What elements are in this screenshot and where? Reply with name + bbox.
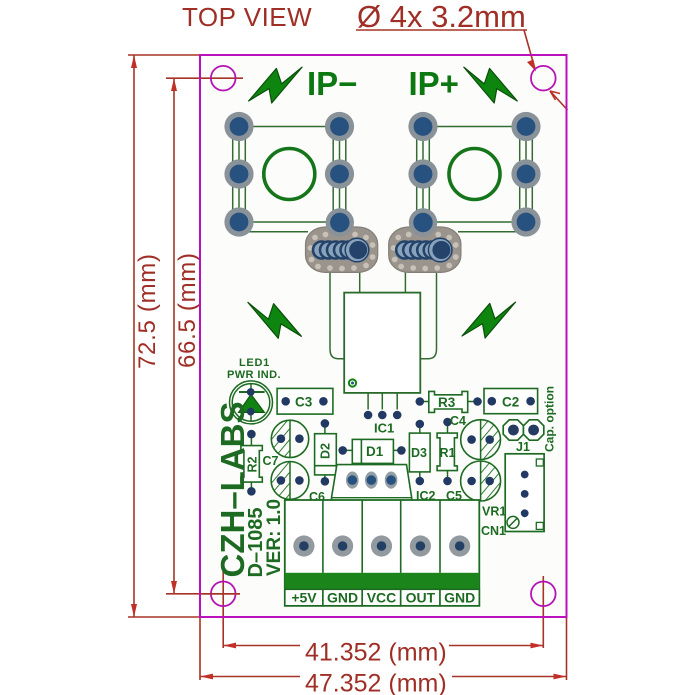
arrowhead 66.5 top — [171, 78, 177, 91]
svg-text:GND: GND — [327, 590, 358, 606]
regulator IC2 outline — [332, 465, 412, 501]
dim extension line through top-left hole — [166, 77, 243, 79]
mounting hole bottom-left — [211, 582, 236, 607]
pad col2 row2 — [325, 159, 354, 188]
pad col3 row1 — [408, 112, 437, 141]
extension vertical from bottom-left hole — [222, 568, 224, 648]
terminal pads — [293, 535, 470, 556]
dim line 72.5mm vertical — [133, 55, 135, 617]
svg-text:R1: R1 — [440, 446, 456, 460]
connector CN1 — [505, 454, 544, 532]
mounting hole top-right — [531, 66, 556, 91]
resistor R3 — [416, 391, 482, 412]
capacitor C3 — [277, 388, 333, 414]
dim line 47.352 left segment — [200, 676, 300, 678]
svg-text:R3: R3 — [438, 395, 456, 410]
resistor R1 — [437, 418, 457, 486]
bolt top-left — [249, 67, 303, 103]
arrowhead 47.352 right — [554, 674, 567, 680]
svg-text:72.5 (mm): 72.5 (mm) — [134, 253, 161, 369]
wire lug2 outer to IC — [420, 272, 436, 359]
svg-text:Ø 4x 3.2mm: Ø 4x 3.2mm — [357, 0, 526, 34]
pad col3 row2 — [408, 159, 437, 188]
dim extension line through bottom-left hole — [166, 593, 240, 595]
svg-text:IP−: IP− — [307, 65, 357, 102]
bolt top-right — [464, 67, 518, 103]
capacitor C5 — [461, 461, 501, 501]
svg-text:VR1: VR1 — [482, 505, 506, 519]
svg-text:47.352 (mm): 47.352 (mm) — [305, 670, 447, 695]
board outline — [200, 55, 567, 617]
svg-text:OUT: OUT — [406, 590, 436, 606]
hole circle IP- — [264, 149, 315, 200]
IC pin stub 3 — [396, 393, 398, 410]
svg-text:TOP VIEW: TOP VIEW — [182, 2, 312, 32]
svg-text:VCC: VCC — [367, 590, 397, 606]
arrowhead 72.5 bottom — [131, 604, 137, 617]
svg-text:D2: D2 — [319, 443, 333, 459]
underline of hole note — [356, 29, 527, 31]
red crosshair bottom-left hole — [202, 593, 241, 595]
trace pair column 1 — [232, 127, 234, 223]
arrowhead 47.352 left — [200, 674, 213, 680]
bolt middle-right — [462, 302, 516, 338]
arrowhead 41.352 left — [223, 643, 236, 649]
board interior tint — [200, 55, 567, 617]
terminal square IP- outline — [239, 127, 340, 223]
capacitor C6 — [271, 462, 309, 500]
lug terminal 2 — [389, 208, 461, 272]
svg-text:C2: C2 — [502, 395, 519, 410]
svg-text:D1: D1 — [366, 444, 384, 459]
extension vertical from board right edge — [566, 617, 568, 680]
wire lug2 inner to IC — [404, 272, 406, 293]
terminal labels — [291, 590, 475, 606]
svg-text:VER: 1.0: VER: 1.0 — [264, 499, 285, 576]
svg-text:41.352 (mm): 41.352 (mm) — [305, 639, 447, 667]
leader line 2 at hole lower right — [551, 92, 568, 110]
dim extension line bottom left — [128, 616, 200, 618]
extension vertical from board left edge — [199, 617, 201, 680]
pad col4 row1 — [511, 112, 540, 141]
IC pin stub 2 — [381, 393, 383, 410]
svg-text:C3: C3 — [295, 395, 313, 410]
diode D1 — [338, 439, 405, 463]
terminal square IP+ outline — [423, 127, 526, 223]
extension vertical from bottom-right hole — [542, 576, 544, 648]
wire lug1 outer to IC — [330, 272, 344, 359]
svg-text:CN1: CN1 — [481, 524, 506, 538]
trace pair column 2 — [332, 127, 334, 223]
arrowhead leader 1 — [527, 60, 536, 72]
pad col2 row1 — [325, 112, 354, 141]
svg-text:GND: GND — [444, 590, 475, 606]
dim line 41.352 right segment — [449, 645, 543, 647]
svg-text:J1: J1 — [516, 440, 530, 454]
lug terminal 1 — [306, 208, 378, 272]
trace pair column 3 — [416, 127, 418, 223]
pad col1 row1 — [224, 112, 253, 141]
diode D2 — [315, 419, 337, 486]
resistor R2 — [241, 430, 262, 496]
jumper J1 — [503, 420, 544, 440]
diode D3 — [409, 420, 430, 486]
svg-text:66.5 (mm): 66.5 (mm) — [174, 252, 201, 368]
IC pin pads — [364, 411, 373, 420]
svg-text:C4: C4 — [450, 414, 466, 428]
trace pair column 4 — [519, 127, 521, 223]
svg-text:IC1: IC1 — [374, 421, 394, 436]
bolt middle-left — [248, 302, 302, 338]
svg-text:C7: C7 — [263, 454, 279, 468]
wire lug2 to pad4 — [458, 231, 526, 233]
svg-text:Cap. option: Cap. option — [543, 386, 557, 452]
arrowhead 72.5 top — [131, 55, 137, 68]
svg-text:+5V: +5V — [291, 590, 317, 606]
dim extension line top left — [128, 54, 200, 56]
svg-text:LED1: LED1 — [239, 357, 270, 369]
leader line to top-right hole — [524, 30, 535, 69]
LED LED1 power indicator — [230, 381, 273, 424]
pad col1 row3 — [224, 207, 253, 236]
mounting hole top-left — [211, 66, 236, 91]
pad col4 row3 — [511, 207, 540, 236]
dim line 47.352 right segment — [452, 676, 567, 678]
capacitor C2 — [484, 389, 538, 414]
arrowhead 66.5 bottom — [171, 581, 177, 594]
wire lug1 inner to IC — [359, 272, 361, 293]
hole circle IP+ — [449, 149, 500, 200]
pad col1 row2 — [224, 159, 253, 188]
arrowhead 41.352 right — [531, 643, 544, 649]
svg-text:D3: D3 — [411, 446, 427, 460]
dim line 66.5mm vertical — [173, 78, 175, 594]
svg-text:IP+: IP+ — [409, 65, 459, 102]
arrowhead leader 2 (open) — [550, 91, 560, 100]
mounting hole bottom-right — [531, 582, 556, 607]
IC pin stub 1 — [367, 393, 369, 410]
capacitor C7 — [271, 420, 308, 457]
svg-text:PWR IND.: PWR IND. — [227, 369, 281, 381]
IC body outline — [344, 293, 420, 393]
pin-1 marker — [349, 379, 356, 386]
wire pad1 to lug1 — [239, 231, 308, 233]
pad col4 row2 — [511, 159, 540, 188]
dim line 41.352 left segment — [223, 645, 300, 647]
capacitor C4 — [461, 420, 501, 460]
